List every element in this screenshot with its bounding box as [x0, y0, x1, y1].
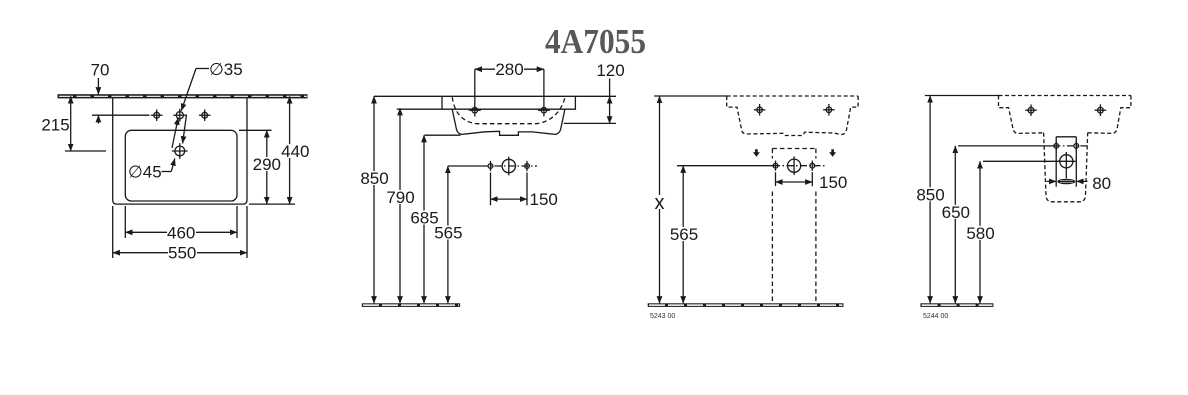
580 extension p4: [983, 160, 1060, 162]
tap hole center: [173, 109, 186, 122]
drain circle p4: [1057, 152, 1076, 178]
svg-text:850: 850: [360, 169, 388, 188]
fitting centerline p3: [677, 165, 773, 167]
dimension 80: [1047, 174, 1112, 193]
fitting small circle right p3: [810, 161, 815, 171]
wall top line p4: [925, 95, 1000, 97]
mounting hole right: [538, 107, 550, 113]
svg-text:440: 440: [281, 142, 309, 161]
svg-text:850: 850: [916, 185, 944, 204]
faucet small circle right: [525, 161, 530, 171]
basin hole left p3: [754, 104, 766, 116]
siphon bracket: [1056, 137, 1076, 187]
fitting big circle p3: [788, 156, 801, 175]
svg-text:565: 565: [670, 225, 698, 244]
dimension 290: [239, 130, 281, 204]
leader arrows tap hole / drain: [172, 118, 178, 148]
dimension 280: [475, 60, 544, 116]
svg-text:580: 580: [966, 224, 994, 243]
siphon shroud dashed: [1044, 133, 1088, 202]
phantom basin outline p3 (dashed): [727, 96, 858, 136]
supply centerline p4: [958, 145, 1053, 147]
label dia 35: [181, 60, 242, 111]
basin hole right p4: [1095, 104, 1107, 116]
floor band p3: [648, 303, 844, 307]
pedestal dashed outline: [772, 149, 816, 304]
svg-text:790: 790: [386, 188, 414, 207]
dimension x: [653, 96, 666, 303]
basin hole right p3: [823, 104, 835, 116]
svg-text:∅45: ∅45: [128, 163, 162, 182]
wall band: [58, 94, 308, 98]
dimension 580: [966, 161, 995, 303]
hidden bowl curve (dashed): [452, 97, 565, 124]
floor band p4: [920, 303, 993, 307]
dimension 215: [41, 96, 70, 151]
svg-text:∅35: ∅35: [209, 60, 243, 79]
faucet centerline front: [448, 165, 481, 167]
phantom basin outline p4 (dashed): [999, 96, 1131, 134]
dimension 565 p3: [669, 166, 698, 304]
faucet big circle: [502, 157, 515, 176]
supply circle left p4: [1054, 141, 1059, 151]
dimension 460: [125, 206, 237, 242]
dimension 650: [941, 146, 970, 303]
svg-text:215: 215: [41, 116, 69, 135]
faucet small circle left: [488, 161, 493, 171]
svg-text:5244 00: 5244 00: [923, 313, 948, 320]
drain hole: [172, 143, 188, 159]
svg-text:4A7055: 4A7055: [545, 22, 646, 61]
dimension 550: [113, 206, 247, 263]
dimension 790: [386, 108, 415, 303]
svg-text:565: 565: [434, 224, 462, 243]
svg-text:150: 150: [819, 173, 847, 192]
svg-text:290: 290: [253, 155, 281, 174]
supply arrow right: [829, 149, 836, 157]
inner basin bowl (top view): [125, 130, 237, 201]
dimension 850 front: [360, 96, 389, 303]
washbasin outer outline (top view): [113, 98, 247, 204]
tap hole right: [199, 109, 211, 121]
basin body front: [452, 109, 565, 135]
fitting small circle left p3: [773, 161, 778, 171]
dimension 150 p3: [776, 172, 848, 192]
svg-text:650: 650: [942, 203, 970, 222]
svg-text:5243 00: 5243 00: [650, 313, 675, 320]
wall top line: [374, 95, 616, 97]
dimension 565 front: [434, 166, 463, 303]
rim block: [442, 96, 575, 109]
svg-text:120: 120: [596, 61, 624, 80]
drain outlet ellipse: [1057, 179, 1075, 185]
dimension 120: [564, 61, 625, 124]
wall top line p3: [654, 95, 728, 97]
dimension 850 p4: [916, 96, 945, 304]
tap hole centerline: [92, 114, 150, 116]
svg-text:280: 280: [495, 60, 523, 79]
tap hole left: [151, 109, 163, 121]
dimension 150 front: [491, 173, 558, 210]
mounting hole left: [469, 107, 481, 113]
floor band front: [362, 303, 460, 307]
svg-text:550: 550: [168, 244, 196, 263]
drain centerline: [65, 150, 106, 152]
supply arrow left: [753, 149, 760, 157]
basin hole left p4: [1025, 104, 1037, 116]
svg-text:70: 70: [91, 60, 110, 79]
svg-text:460: 460: [167, 223, 195, 242]
svg-text:150: 150: [530, 190, 558, 209]
supply circle right p4: [1074, 141, 1079, 151]
dimension 685: [410, 135, 461, 303]
dimension 70: [91, 60, 110, 123]
label dia 45: [128, 159, 175, 182]
svg-text:x: x: [655, 192, 665, 214]
790 extension line: [397, 108, 442, 110]
dimension 440: [249, 96, 310, 204]
svg-text:80: 80: [1092, 174, 1111, 193]
